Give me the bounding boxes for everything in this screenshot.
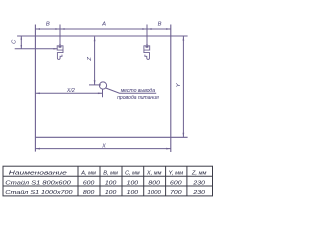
svg-text:800: 800 — [83, 190, 95, 196]
svg-text:230: 230 — [192, 180, 206, 186]
svg-text:Стайл S1 800x600: Стайл S1 800x600 — [5, 179, 71, 186]
svg-text:C, мм: C, мм — [125, 171, 140, 177]
svg-text:Y, мм: Y, мм — [169, 171, 184, 177]
svg-text:Z: Z — [87, 57, 93, 62]
svg-text:Z, мм: Z, мм — [191, 171, 207, 177]
svg-text:X: X — [101, 144, 106, 150]
svg-text:место вывода: место вывода — [121, 88, 156, 94]
svg-text:B: B — [158, 22, 162, 28]
svg-text:A, мм: A, мм — [80, 171, 96, 177]
svg-text:600: 600 — [170, 180, 182, 186]
svg-text:100: 100 — [127, 190, 139, 196]
svg-text:B: B — [46, 22, 50, 28]
svg-text:Наименование: Наименование — [9, 171, 68, 177]
svg-text:X/2: X/2 — [66, 88, 75, 94]
svg-text:100: 100 — [105, 190, 117, 196]
svg-text:провода питания: провода питания — [117, 95, 159, 101]
svg-text:1000: 1000 — [147, 190, 161, 196]
svg-text:100: 100 — [105, 180, 117, 186]
svg-text:100: 100 — [127, 180, 139, 186]
svg-text:X, мм: X, мм — [146, 171, 162, 177]
svg-text:B, мм: B, мм — [103, 171, 118, 177]
svg-text:230: 230 — [192, 190, 206, 196]
svg-text:800: 800 — [148, 180, 160, 186]
svg-text:A: A — [101, 22, 106, 28]
svg-text:Стайл S1 1000x700: Стайл S1 1000x700 — [5, 189, 73, 196]
svg-text:700: 700 — [170, 190, 182, 196]
svg-text:600: 600 — [83, 180, 95, 186]
